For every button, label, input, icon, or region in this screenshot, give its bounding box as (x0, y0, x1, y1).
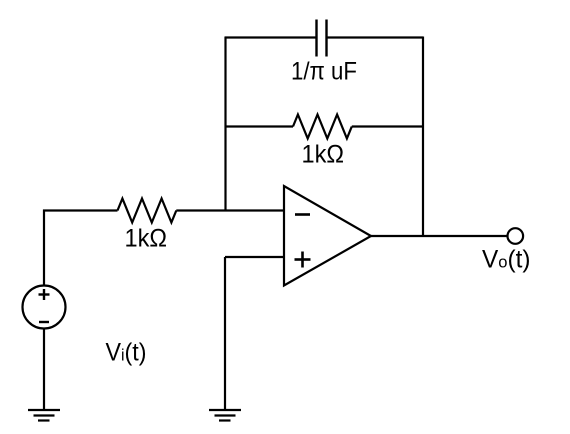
svg-text:Vi(t): Vi(t) (106, 339, 147, 367)
voltage source V1 (23, 286, 66, 329)
wire input right segment to op-amp (176, 209, 285, 211)
wire source bottom vertical (43, 329, 45, 411)
ground under source (28, 410, 60, 421)
svg-text:1/π uF: 1/π uF (291, 58, 357, 86)
wire source top vertical (43, 210, 45, 286)
wire input left segment from source (43, 209, 118, 211)
wire right vertical feedback branch (422, 37, 424, 238)
resistor R1 zigzag 1k input (118, 199, 177, 223)
wire left vertical feedback branch (224, 37, 226, 212)
resistor R2 zigzag 1k feedback (293, 115, 352, 139)
wire top feedback left segment (225, 36, 316, 38)
wire feedback resistor left lead (225, 125, 294, 127)
op-amp U1 (284, 186, 371, 286)
wire non-inverting input horizontal (225, 256, 284, 258)
svg-text:1kΩ: 1kΩ (125, 225, 168, 253)
ground under non-inverting input (209, 410, 241, 421)
svg-text:1kΩ: 1kΩ (302, 141, 345, 169)
wire output (371, 235, 508, 237)
wire feedback resistor right lead (352, 125, 424, 127)
output terminal node Vo (508, 228, 524, 244)
wire top feedback right segment (327, 36, 423, 38)
capacitor C1 plates (317, 20, 327, 57)
wire non-inverting vertical to ground (224, 257, 226, 410)
